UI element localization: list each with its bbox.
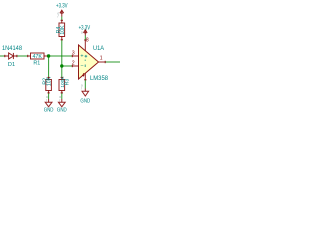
svg-text:1N4148: 1N4148 bbox=[2, 46, 23, 52]
svg-text:/: / bbox=[46, 99, 47, 103]
svg-text:/: / bbox=[58, 15, 59, 19]
svg-text:GND: GND bbox=[57, 108, 67, 114]
svg-text:o: o bbox=[81, 31, 83, 35]
svg-text:+: + bbox=[80, 54, 83, 60]
svg-text:−: − bbox=[80, 63, 83, 69]
svg-text:U1A: U1A bbox=[93, 46, 104, 52]
svg-text:LM358: LM358 bbox=[90, 75, 109, 82]
svg-text:GND: GND bbox=[44, 108, 54, 114]
svg-text:8: 8 bbox=[86, 37, 89, 43]
svg-text:10K: 10K bbox=[47, 76, 53, 86]
svg-text:47K: 47K bbox=[32, 54, 42, 60]
svg-text:R1: R1 bbox=[33, 60, 40, 66]
svg-text:D1: D1 bbox=[8, 62, 15, 68]
svg-text:100K: 100K bbox=[60, 76, 66, 88]
svg-text:GND: GND bbox=[80, 98, 90, 104]
svg-text:+3.3V: +3.3V bbox=[56, 3, 68, 9]
svg-text:10K: 10K bbox=[60, 25, 66, 35]
svg-text:2: 2 bbox=[72, 61, 75, 67]
svg-text:3: 3 bbox=[72, 51, 75, 57]
svg-text:/: / bbox=[81, 87, 82, 91]
svg-text:4: 4 bbox=[82, 73, 85, 79]
svg-text:/: / bbox=[59, 99, 60, 103]
svg-text:1: 1 bbox=[100, 56, 103, 62]
